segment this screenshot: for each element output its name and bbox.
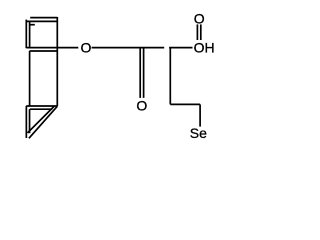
- acid C=O double bond line 1: [196, 24, 198, 40]
- svg-text:O: O: [194, 10, 205, 26]
- cage square inner left edge: [29, 21, 31, 47]
- cage square front bottom edge merged with ester bond: [27, 47, 79, 49]
- cage square back top edge: [30, 17, 57, 19]
- svg-text:Se: Se: [190, 125, 207, 141]
- triangle outer top edge: [26, 105, 57, 107]
- cage square front top edge: [26, 20, 57, 22]
- triangle outer hypotenuse: [29, 106, 58, 138]
- svg-text:OH: OH: [194, 39, 215, 55]
- chain vertical bond down: [169, 48, 171, 105]
- cage square inner top stub: [30, 24, 35, 26]
- bond O1 to ester carbon: [92, 47, 165, 49]
- acid C=O double bond line 2: [200, 24, 202, 40]
- svg-text:O: O: [80, 40, 91, 56]
- ester C=O double bond line 1: [139, 48, 141, 98]
- triangle inner top edge: [30, 108, 53, 110]
- chain horizontal bond: [170, 103, 200, 105]
- bond down to Se: [199, 104, 201, 126]
- cage rectangle left edge: [29, 51, 31, 106]
- triangle outer left edge: [25, 106, 27, 138]
- cage square outer left edge: [25, 20, 27, 49]
- ester C=O double bond line 2: [143, 48, 145, 98]
- triangle inner left edge: [29, 109, 31, 133]
- triangle inner hypotenuse: [28, 106, 55, 133]
- bond after gap to acid carbon: [169, 47, 192, 49]
- cage square back bottom edge: [30, 50, 58, 52]
- cage right edge (square + rectangle): [56, 17, 58, 106]
- svg-text:O: O: [136, 98, 147, 114]
